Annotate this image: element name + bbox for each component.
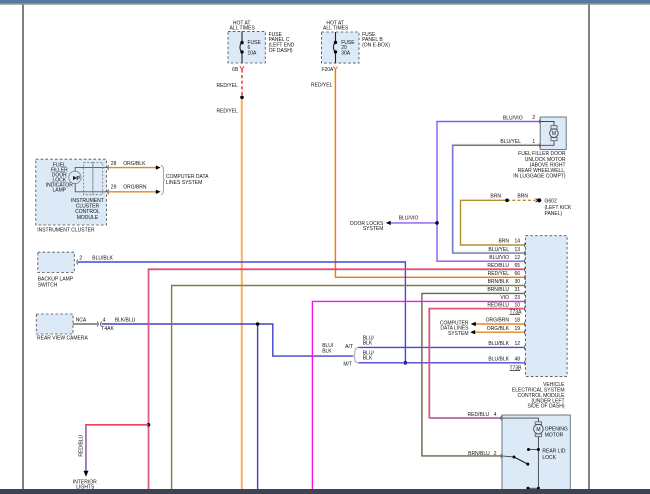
indicator lamp symbol: [69, 171, 81, 183]
svg-text:LOCK: LOCK: [542, 455, 556, 461]
svg-text:ORG/BLK: ORG/BLK: [123, 161, 146, 167]
pin 48: [524, 360, 525, 365]
wire BLU/VIO branch to door locks system: [391, 222, 437, 224]
INTERIOR LIGHTS: [73, 435, 97, 491]
opening motor M2: [502, 418, 538, 422]
svg-text:ALL TIMES: ALL TIMES: [323, 26, 349, 32]
arrow to computer data lines: [156, 165, 161, 169]
svg-text:30A: 30A: [341, 50, 351, 56]
svg-text:2: 2: [79, 255, 82, 261]
DOOR LOCKS SYSTEM: [350, 216, 419, 233]
motor box: [540, 117, 566, 150]
pin 29: [108, 189, 109, 194]
svg-text:OPENING: OPENING: [545, 426, 568, 432]
svg-text:M: M: [552, 131, 556, 137]
wire BRN dashed to G602: [507, 199, 535, 201]
INSTRUMENT CLUSTER BLOCK: [36, 159, 209, 233]
top window bar: [0, 0, 650, 3]
svg-text:ORG/BLK: ORG/BLK: [487, 326, 510, 332]
svg-text:12: 12: [515, 255, 521, 261]
pin 12 T73A: [524, 259, 525, 264]
arrow ORG/BLK: [470, 330, 475, 334]
REAR VIEW CAMERA BLOCK: [36, 314, 135, 341]
svg-text:23: 23: [515, 295, 521, 301]
svg-text:BLU/BLK: BLU/BLK: [92, 255, 113, 261]
svg-text:BRN/BLU: BRN/BLU: [468, 451, 490, 457]
fuse panel B dashed box: [322, 32, 360, 63]
arrow ORG/BRN: [471, 322, 476, 326]
svg-text:SWITCH: SWITCH: [38, 283, 58, 289]
wire BLU/BLK from backup lamp switch to M/T splice: [78, 262, 406, 363]
junction RED/BLU interior lights splice: [147, 423, 151, 427]
svg-text:SIDE OF DASH): SIDE OF DASH): [528, 404, 565, 410]
junction camera splice: [256, 322, 260, 326]
svg-text:BLK/BLU: BLK/BLU: [115, 318, 136, 324]
svg-text:13: 13: [515, 247, 521, 253]
wire BRN/BLU module pin 31 to rear lid lock pin 2: [422, 293, 524, 456]
brace computer data lines: [161, 165, 165, 194]
wire ORG/BLK cluster pin 28: [107, 167, 156, 169]
lower contact: [528, 487, 538, 489]
svg-text:RED/YEL: RED/YEL: [216, 83, 238, 89]
pin 10: [524, 306, 525, 311]
pin 30: [524, 283, 525, 288]
page frame left: [22, 5, 24, 489]
arrow interior lights: [84, 471, 89, 477]
svg-text:T4AK: T4AK: [101, 326, 114, 332]
svg-text:RED/BLU: RED/BLU: [79, 435, 85, 457]
svg-text:4: 4: [494, 412, 497, 418]
svg-text:VIO: VIO: [500, 295, 509, 301]
svg-text:F20A: F20A: [321, 67, 334, 73]
svg-text:10: 10: [515, 302, 521, 308]
wire RED/YEL from fuse F20A to module pin 66: [334, 69, 523, 276]
svg-text:12: 12: [515, 341, 521, 347]
wire BLK/BLU down off-page: [257, 324, 259, 489]
cluster module inner dashed boxes: [84, 163, 93, 195]
pin 28: [108, 165, 109, 170]
svg-text:6B: 6B: [232, 67, 239, 73]
svg-text:LAMP: LAMP: [52, 188, 66, 194]
svg-text:ALL TIMES: ALL TIMES: [230, 26, 256, 32]
wire RED/BLU module pin 10 to rear lid lock pin 4: [429, 308, 524, 418]
svg-text:REAR VIEW CAMERA: REAR VIEW CAMERA: [37, 335, 89, 341]
wire BLK/BLU from rear view camera: [102, 324, 353, 356]
FUSE PANEL B BLOCK: [311, 20, 390, 88]
GROUND G602: [490, 193, 572, 217]
svg-text:SYSTEM: SYSTEM: [363, 226, 384, 232]
arrow door locks: [386, 221, 391, 225]
svg-text:BLK: BLK: [363, 355, 373, 361]
svg-text:A/T: A/T: [345, 344, 353, 350]
rear lid lock switch: [537, 437, 539, 489]
svg-text:BRN/BLK: BRN/BLK: [488, 279, 510, 285]
svg-text:28: 28: [111, 161, 117, 167]
rear lid lock box: [502, 415, 570, 494]
page frame right: [588, 5, 590, 489]
svg-text:M: M: [536, 427, 540, 433]
svg-text:4: 4: [103, 318, 106, 324]
svg-text:1: 1: [532, 139, 535, 145]
svg-text:RED/BLU: RED/BLU: [487, 302, 509, 308]
junction BLU/VIO splice: [435, 221, 439, 225]
BACKUP LAMP SWITCH BLOCK: [38, 252, 114, 288]
pin 19: [524, 330, 525, 335]
svg-text:BLU/VIO: BLU/VIO: [489, 255, 509, 261]
VEHICLE ELECTRICAL SYSTEM CONTROL MODULE BLOCK: [486, 236, 567, 410]
brace split A/T M/T: [353, 347, 359, 362]
wire RED/YEL from 6B junction down off-page: [240, 97, 242, 489]
svg-text:48: 48: [515, 357, 521, 363]
svg-text:SYSTEM: SYSTEM: [448, 331, 469, 337]
pin 23: [524, 299, 525, 304]
lamp wires: [75, 168, 107, 172]
svg-text:BLU/BLK: BLU/BLK: [488, 341, 509, 347]
svg-text:BLU/VIO: BLU/VIO: [399, 216, 419, 222]
junction M/T splice: [404, 361, 408, 365]
bottom window bar: [0, 489, 650, 494]
svg-text:REAR LID: REAR LID: [542, 448, 565, 454]
svg-text:BLU/YEL: BLU/YEL: [488, 247, 509, 253]
fuse panel C dashed box: [228, 31, 265, 63]
svg-text:18: 18: [515, 318, 521, 324]
wire BLU/VIO motor pin 2 to module pin 12: [437, 122, 539, 262]
wire RED/YEL dashed from fuse 6B: [241, 69, 243, 97]
motor M1 internal wiring: [540, 122, 554, 126]
svg-text:RED/BLU: RED/BLU: [487, 263, 509, 269]
wire BLU/YEL motor pin 1 to module pin 13: [452, 144, 539, 252]
svg-text:10A: 10A: [248, 50, 258, 56]
svg-text:RED/YEL: RED/YEL: [216, 108, 238, 114]
svg-text:RED/YEL: RED/YEL: [311, 82, 333, 88]
pin 13: [524, 251, 525, 256]
svg-text:RED/YEL: RED/YEL: [488, 271, 510, 277]
svg-text:65: 65: [515, 263, 521, 269]
rear view camera dashed box: [36, 314, 73, 334]
switch arm: [502, 456, 514, 457]
svg-text:19: 19: [515, 326, 521, 332]
REAR LID LOCK BLOCK: [468, 412, 571, 494]
junction BRN splice: [505, 199, 509, 203]
svg-text:BLU/VIO: BLU/VIO: [503, 115, 523, 121]
svg-text:BRN/BLU: BRN/BLU: [487, 287, 509, 293]
svg-text:RED/BLU: RED/BLU: [468, 412, 490, 418]
svg-text:66: 66: [515, 271, 521, 277]
backup lamp switch dashed box: [38, 252, 75, 272]
ground symbol: [536, 198, 538, 202]
wire VIO module pin 23 down off-page: [312, 301, 523, 489]
svg-text:BRN: BRN: [490, 193, 501, 199]
svg-text:ORG/BRN: ORG/BRN: [486, 318, 510, 324]
FUSE PANEL C BLOCK: [216, 20, 294, 114]
svg-text:INSTRUMENT CLUSTER: INSTRUMENT CLUSTER: [37, 228, 95, 234]
junction 6B splice: [240, 96, 244, 100]
FUEL FILLER DOOR UNLOCK MOTOR BLOCK: [500, 115, 566, 180]
svg-text:OF DASH): OF DASH): [269, 48, 293, 54]
svg-text:IN LUGGAGE COMPT): IN LUGGAGE COMPT): [513, 174, 566, 180]
svg-text:30: 30: [515, 279, 521, 285]
svg-text:LINES SYSTEM: LINES SYSTEM: [166, 180, 202, 186]
pin 18: [524, 322, 525, 327]
pin 12 T73B: [524, 345, 525, 350]
A/T M/T SPLIT: [322, 335, 374, 367]
svg-text:G602: G602: [545, 198, 557, 204]
svg-text:M/T: M/T: [343, 361, 352, 367]
pin 66: [524, 275, 525, 280]
pin 65: [524, 267, 525, 272]
svg-text:29: 29: [111, 185, 117, 191]
wire ORG/BLK module pin 19: [475, 331, 524, 333]
svg-text:BLK: BLK: [363, 340, 373, 346]
svg-text:(LEFT KICK: (LEFT KICK: [545, 205, 573, 211]
wire NCA stub: [73, 323, 98, 325]
wire BLU/BLK A/T to module pin 12: [358, 346, 524, 348]
wire ORG/BRN cluster pin 29: [107, 191, 156, 193]
svg-text:14: 14: [515, 239, 521, 245]
svg-text:2: 2: [494, 451, 497, 457]
svg-text:BRN: BRN: [517, 193, 528, 199]
svg-text:2: 2: [532, 115, 535, 121]
svg-text:31: 31: [515, 287, 521, 293]
module dashed box: [526, 236, 568, 377]
wire BLU/BLK M/T to module pin 48: [358, 362, 524, 364]
pin 14: [524, 243, 525, 248]
svg-text:BLU/BLK: BLU/BLK: [488, 357, 509, 363]
svg-text:MODULE: MODULE: [77, 215, 99, 221]
svg-text:BLK: BLK: [322, 348, 332, 354]
wire ORG/BRN module pin 18: [476, 323, 524, 325]
WIRES-LAYER: [78, 69, 539, 489]
fuse 6 10A symbol: [240, 31, 242, 63]
wire RED/BLU to interior lights: [86, 425, 149, 471]
svg-text:(ON E-BOX): (ON E-BOX): [362, 43, 390, 49]
svg-text:ORG/BRN: ORG/BRN: [123, 185, 147, 191]
fuse 20 30A symbol: [333, 32, 335, 63]
wire BRN to ground G602: [461, 200, 524, 245]
svg-text:PANEL): PANEL): [545, 211, 563, 217]
instrument cluster dashed box: [36, 159, 107, 225]
svg-text:BLU/YEL: BLU/YEL: [500, 139, 521, 145]
COMPUTER DATA LINES SYSTEM (module side): [440, 321, 476, 337]
wire RED/BLU module pin 65: [148, 269, 524, 489]
connector T4AK: [97, 322, 98, 327]
svg-text:BRN: BRN: [498, 239, 509, 245]
wire BRN/BLK module pin 30 down off-page: [172, 286, 524, 490]
svg-text:MOTOR: MOTOR: [545, 432, 564, 438]
pin 31: [524, 291, 525, 296]
svg-text:NCA: NCA: [76, 318, 87, 324]
